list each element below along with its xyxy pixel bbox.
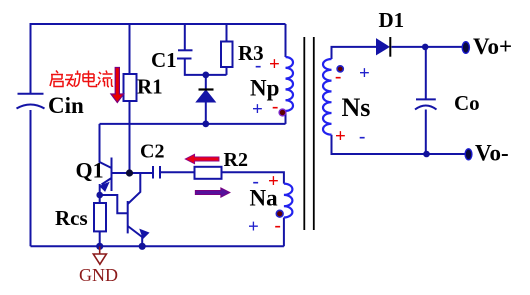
- svg-text:GND: GND: [79, 265, 118, 285]
- svg-text:+: +: [269, 54, 280, 75]
- svg-text:Vo+: Vo+: [473, 34, 512, 59]
- svg-text:+: +: [248, 217, 259, 238]
- svg-text:+: +: [268, 171, 279, 192]
- svg-text:Rcs: Rcs: [55, 206, 88, 230]
- svg-text:-: -: [255, 55, 261, 76]
- svg-text:+: +: [252, 99, 263, 120]
- svg-text:-: -: [275, 215, 281, 236]
- svg-text:C2: C2: [140, 141, 164, 163]
- svg-text:-: -: [272, 96, 278, 117]
- svg-text:Ns: Ns: [342, 93, 371, 122]
- svg-text:Cin: Cin: [48, 93, 84, 118]
- svg-text:D1: D1: [379, 8, 405, 32]
- svg-text:C1: C1: [151, 48, 177, 72]
- svg-text:Co: Co: [454, 91, 480, 115]
- svg-text:R1: R1: [137, 75, 163, 99]
- svg-text:Vo-: Vo-: [475, 141, 509, 166]
- svg-text:+: +: [359, 63, 370, 84]
- svg-text:R2: R2: [224, 149, 248, 171]
- svg-text:Q1: Q1: [76, 158, 104, 183]
- svg-text:-: -: [335, 66, 341, 87]
- svg-text:+: +: [335, 126, 346, 147]
- svg-text:-: -: [359, 126, 365, 147]
- svg-text:-: -: [253, 171, 259, 192]
